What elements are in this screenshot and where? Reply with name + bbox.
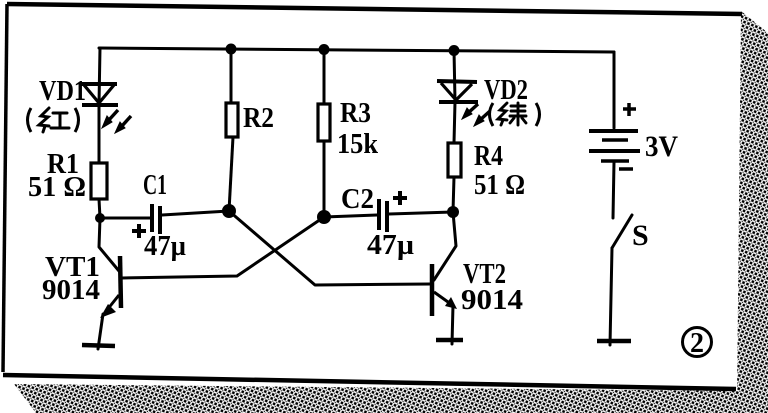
wire switch to ground [610,248,612,345]
node dot R2 top [226,44,237,55]
wire VD2 anode to rail [454,50,455,101]
svg-text:S: S [632,219,649,252]
wire battery top [613,52,616,128]
resistor R4 [448,143,461,177]
resistor R3 [318,104,330,141]
frame top border [7,4,742,14]
svg-text:R3: R3 [340,97,371,129]
resistor R2 [226,103,238,137]
svg-text:9014: 9014 [42,274,100,306]
capacitor C2 polarity + [393,191,407,205]
svg-text:3V: 3V [645,130,678,163]
svg-text:15k: 15k [337,128,379,160]
label green hanzi [498,103,526,125]
wire VT1 collector from node K1 [99,218,119,271]
frame left border [3,4,7,372]
wire battery to switch [613,162,614,218]
label (red) paren close [75,108,79,132]
svg-text:C2: C2 [341,183,374,215]
node dot A [222,204,236,218]
wire C1 to node A [162,211,229,215]
LED VD2 [437,81,478,102]
node dot R3 top [319,44,330,55]
LED VD2 arrows [462,104,490,126]
capacitor C1 [152,204,160,234]
halftone paper shadow right wedge [737,11,768,400]
halftone paper shadow bottom band [14,384,768,413]
label (green) paren close [536,103,540,126]
battery plus sign [623,103,636,116]
wire node D to VT2 collector [434,212,456,280]
label red hanzi [39,108,69,132]
svg-text:2: 2 [690,328,704,359]
wire R2 bottom to node A [229,137,233,211]
wire VT1 emitter to ground [98,314,103,349]
wire node B to C2 [324,215,377,217]
switch S lever [612,215,632,248]
svg-text:VD2: VD2 [484,74,528,106]
transistor VT2 [432,264,448,316]
LED VD1 arrows [102,110,131,133]
label (green) paren open [490,103,494,126]
capacitor C1 polarity + [132,224,146,238]
battery minus sign [619,167,633,171]
wire node B to VT1 base [122,217,324,278]
node dot VD2 top [449,45,460,56]
wire VT2 emitter to ground [452,305,453,344]
battery B1 3V [589,131,640,161]
svg-text:C1: C1 [143,169,167,201]
wire node K1 to C1 [100,217,150,220]
wire VD2 cathode to R4 [454,102,455,143]
resistor R1 [91,163,107,199]
wire C2 to node D [389,212,453,214]
wire R2 top [230,49,233,103]
LED VD1 [80,84,118,105]
wire node A to VT2 base [229,211,431,285]
ground under switch [597,339,631,344]
svg-text:R4: R4 [474,140,503,172]
svg-text:VD1: VD1 [39,75,86,107]
svg-text:9014: 9014 [461,284,523,316]
wire VD1 cathode to R1 [98,105,101,163]
wire top supply rail [99,48,614,52]
figure number circled 2 [683,328,712,357]
wire VD1 anode to rail [99,48,100,104]
wire R3 bottom to node B [323,141,326,217]
capacitor C2 [379,199,387,232]
ground under VT1 [82,345,115,346]
node dot K1 [95,213,105,223]
node dot B [317,210,331,224]
wire R3 top [323,49,326,104]
svg-text:R2: R2 [243,102,274,134]
transistor VT1 [107,256,121,310]
svg-text:51 Ω: 51 Ω [28,171,86,203]
wire R1 to node K1 [99,199,100,218]
svg-text:47µ: 47µ [367,229,414,261]
wire R4 to node D [453,177,454,212]
label (red) paren open [28,108,32,132]
frame bottom border [3,375,736,389]
svg-text:51 Ω: 51 Ω [474,169,525,201]
svg-text:47µ: 47µ [144,230,186,262]
node dot D [447,206,459,218]
ground under VT2 [436,338,463,343]
